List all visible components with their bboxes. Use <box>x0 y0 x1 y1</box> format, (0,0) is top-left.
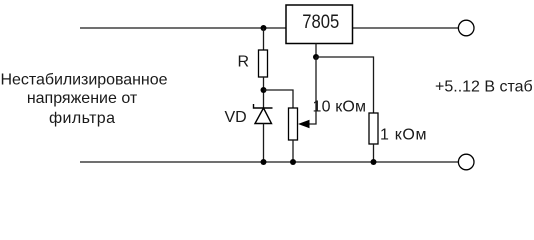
zener diode VD <box>254 104 273 124</box>
svg-text:10 кОм: 10 кОм <box>313 99 367 116</box>
node junction pot bottom <box>290 159 296 165</box>
wire 1 kOhm bottom <box>373 144 375 162</box>
wire branch to potentiometer top <box>264 90 294 108</box>
wire pot bottom <box>292 140 294 162</box>
wire top rail right <box>353 27 459 29</box>
resistor 1 kOhm <box>369 113 378 144</box>
svg-text:7805: 7805 <box>302 12 339 33</box>
wire R top <box>263 28 265 50</box>
node junction zener bottom <box>261 159 267 165</box>
wire wiper vertical and horizontal <box>308 57 316 124</box>
svg-text:Нестабилизированное: Нестабилизированное <box>1 72 168 89</box>
potentiometer body 10 kOhm <box>289 108 298 140</box>
wire zener bottom <box>263 124 265 163</box>
regulator U1 7805 <box>286 5 353 44</box>
svg-text:R: R <box>238 54 250 71</box>
resistor R <box>259 50 268 77</box>
node junction top of R <box>261 25 267 31</box>
wire regulator ground pin down <box>315 44 317 58</box>
node junction gnd pin <box>313 54 319 60</box>
wire top rail left <box>80 27 286 29</box>
wire R bottom to zener <box>263 77 265 108</box>
svg-text:+5..12 В стаб: +5..12 В стаб <box>435 79 533 96</box>
wire bottom rail <box>80 161 459 163</box>
svg-text:фильтра: фильтра <box>49 110 115 127</box>
svg-text:напряжение от: напряжение от <box>27 90 138 107</box>
wiper arrow of potentiometer <box>298 120 310 128</box>
node junction R bottom <box>261 87 267 93</box>
svg-text:1 кОм: 1 кОм <box>380 127 427 144</box>
wire branch to 1 kOhm resistor <box>316 57 374 113</box>
terminal output minus <box>458 154 474 170</box>
node junction 1k bottom <box>371 159 377 165</box>
terminal output plus <box>458 20 474 36</box>
svg-text:VD: VD <box>225 109 247 126</box>
